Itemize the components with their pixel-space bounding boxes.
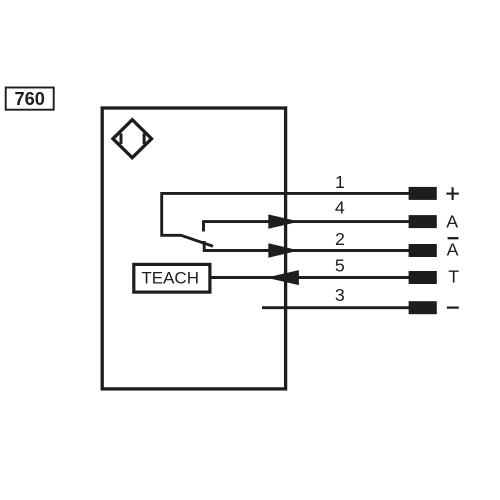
svg-text:4: 4 (335, 198, 345, 218)
svg-text:760: 760 (15, 89, 45, 109)
svg-text:T: T (448, 266, 459, 286)
svg-text:5: 5 (335, 255, 345, 275)
svg-text:1: 1 (335, 172, 345, 192)
svg-text:A: A (447, 239, 459, 259)
svg-text:2: 2 (335, 229, 345, 249)
svg-text:TEACH: TEACH (141, 269, 199, 288)
svg-text:A: A (446, 212, 458, 232)
svg-text:3: 3 (335, 285, 345, 305)
